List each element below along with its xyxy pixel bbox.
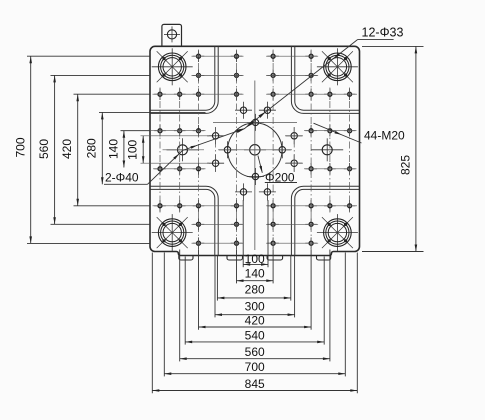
top tab hole (164, 26, 180, 42)
bottom dimension 845 (152, 377, 357, 392)
label 2-Phi40 (104, 127, 246, 185)
label 44-M20 (314, 123, 406, 143)
label Phi200 (258, 156, 297, 185)
label 12-Phi33 (244, 25, 403, 129)
bottom dimension 700 (164, 360, 345, 375)
M20 hole grid row2 (193, 70, 317, 82)
recess contour top-right (295, 46, 360, 110)
hole row centerlines (121, 56, 358, 243)
top lifting tab (162, 24, 182, 46)
bottom dimension 100 (243, 252, 268, 266)
svg-text:280: 280 (245, 283, 265, 297)
svg-text:845: 845 (245, 377, 265, 391)
bottom dimension 300 (215, 299, 295, 316)
M20 hole grid row7 (193, 219, 317, 231)
svg-text:300: 300 (245, 299, 265, 313)
svg-text:560: 560 (37, 139, 51, 159)
left dimension 140 (106, 131, 150, 168)
hole column centerlines (160, 50, 350, 250)
bottom dimension 540 (185, 328, 324, 343)
tie bar hole top-right (317, 48, 358, 85)
recess contour bottom-right (295, 189, 360, 255)
svg-text:2-Φ40: 2-Φ40 (105, 170, 139, 184)
bottom extension lines (152, 200, 357, 393)
center hole (250, 145, 260, 155)
right dimension 825 (362, 46, 424, 251)
bottom dimension 140 (237, 267, 274, 282)
tie bar hole top-left (152, 48, 193, 85)
left dimension 700 (14, 56, 151, 243)
left dimension 420 (60, 94, 150, 206)
svg-text:44-M20: 44-M20 (364, 129, 405, 143)
Phi200 locating ring circle (228, 123, 282, 177)
bottom dimension 280 (217, 283, 290, 300)
bottom clamp tab 1 (179, 256, 193, 261)
bottom dimension 420 (199, 313, 312, 328)
svg-text:420: 420 (60, 139, 74, 159)
svg-text:280: 280 (85, 138, 99, 158)
tie bar hole bottom-left (152, 214, 193, 251)
svg-text:825: 825 (398, 155, 412, 175)
bottom clamp tab 3 (267, 256, 283, 261)
bottom dimension 560 (180, 345, 330, 360)
svg-text:700: 700 (245, 360, 265, 374)
vertical centerline (254, 81, 256, 251)
left dimension 280 (85, 112, 206, 184)
svg-text:560: 560 (245, 345, 265, 359)
svg-text:700: 700 (14, 137, 28, 157)
Phi40 hole left (167, 138, 199, 161)
svg-text:100: 100 (245, 252, 265, 266)
recess contour top-left (150, 46, 215, 110)
M20 hole grid row3 (154, 88, 355, 100)
M20 hole grid row6 (154, 200, 355, 212)
left dimension 560 (37, 75, 150, 224)
svg-text:100: 100 (126, 139, 140, 159)
svg-text:540: 540 (245, 328, 265, 342)
tie bar hole bottom-right (317, 214, 358, 251)
M20 hole grid row8 (193, 237, 317, 249)
M20 hole grid row5 (154, 163, 355, 175)
bottom clamp tab 2 (227, 256, 243, 261)
left dimension 100 (126, 136, 145, 163)
plate outline (150, 46, 360, 255)
svg-text:420: 420 (245, 313, 265, 327)
svg-text:140: 140 (106, 139, 120, 159)
bottom clamp tab 4 (317, 256, 331, 261)
Phi33 holes ring (207, 102, 303, 201)
Phi40 hole right (311, 138, 343, 161)
M20 hole grid row4 (154, 125, 355, 137)
horizontal center hole crosshair (244, 149, 266, 151)
recess contour bottom-left (150, 189, 215, 255)
svg-text:12-Φ33: 12-Φ33 (362, 25, 404, 39)
svg-text:140: 140 (245, 267, 265, 281)
M20 hole grid row1 (193, 50, 317, 62)
